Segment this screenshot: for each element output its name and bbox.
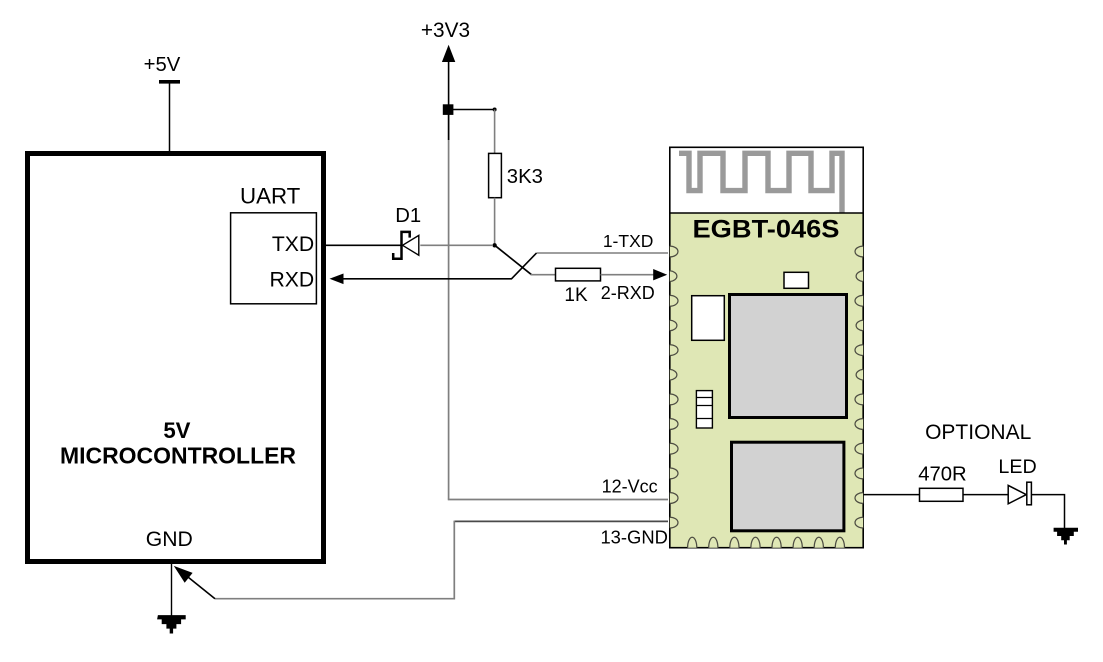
svg-text:12-Vcc: 12-Vcc [602,477,658,497]
svg-text:+3V3: +3V3 [421,19,470,42]
svg-text:EGBT-046S: EGBT-046S [693,217,840,244]
svg-text:3K3: 3K3 [507,166,543,188]
svg-text:13-GND: 13-GND [600,526,667,547]
svg-text:+5V: +5V [144,54,181,76]
svg-text:LED: LED [998,456,1036,478]
svg-text:TXD: TXD [272,233,314,256]
svg-text:GND: GND [146,528,193,551]
svg-text:OPTIONAL: OPTIONAL [925,421,1031,444]
svg-text:1-TXD: 1-TXD [603,231,654,251]
svg-text:1K: 1K [564,285,588,306]
svg-text:470R: 470R [918,463,967,485]
svg-text:UART: UART [240,184,301,209]
svg-text:RXD: RXD [269,269,314,292]
svg-text:2-RXD: 2-RXD [601,283,655,303]
svg-text:5V: 5V [163,418,190,443]
svg-text:D1: D1 [395,205,421,227]
svg-text:MICROCONTROLLER: MICROCONTROLLER [60,443,296,469]
